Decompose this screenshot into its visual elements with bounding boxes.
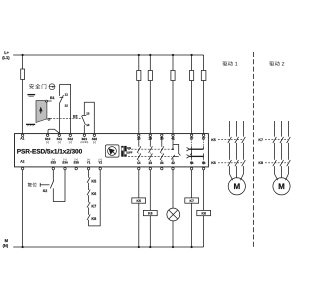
svg-text:K5: K5: [211, 138, 216, 142]
wire S11 riser (lower part): [59, 103, 61, 134]
svg-text:K5: K5: [91, 180, 96, 184]
output path 67-68 (semiconductor output bar): [187, 137, 204, 165]
wire jumper S10 to S11: [48, 129, 59, 134]
door guide bottom mark: [26, 124, 35, 126]
svg-text:B1: B1: [50, 96, 55, 100]
fuse F3: [148, 71, 152, 81]
svg-text:K8: K8: [258, 161, 263, 165]
fuse F5: [190, 71, 194, 81]
coil K7: [185, 198, 199, 203]
svg-text:14: 14: [137, 161, 141, 165]
wire 42 column to lamp: [172, 170, 174, 209]
safety door guard panel (hatched): [36, 101, 47, 123]
junction dot 23 column: [149, 54, 151, 56]
svg-text:A1: A1: [20, 137, 24, 141]
wire drop to fuse F3 (23 column): [149, 55, 151, 71]
terminal circles top row: [21, 134, 204, 136]
svg-text:S34: S34: [62, 161, 68, 165]
svg-text:K6: K6: [91, 192, 96, 196]
contact K6 aux (feedback): [87, 190, 90, 196]
wire 68 column to coil K8: [203, 170, 205, 211]
svg-text:OFF: OFF: [127, 152, 133, 155]
wire Y1 feedback chain top: [88, 170, 90, 178]
logo emblem: [105, 145, 119, 157]
wire S21 riser (lower part): [83, 125, 85, 134]
svg-text:驱动 2: 驱动 2: [269, 61, 285, 68]
svg-text:K6: K6: [148, 212, 152, 216]
junction dot: [191, 246, 193, 248]
svg-text:L+: L+: [4, 50, 9, 55]
svg-text:A2: A2: [20, 160, 24, 164]
lamp P1 indicator: [167, 208, 180, 221]
svg-text:[+]: [+]: [58, 141, 61, 144]
coil K8: [197, 210, 211, 215]
output path 57-58 (semiconductor output bar): [187, 137, 204, 165]
junction dot: [172, 246, 174, 248]
svg-text:[+]: [+]: [46, 141, 49, 144]
svg-text:M: M: [233, 182, 240, 191]
svg-text:S33: S33: [51, 161, 57, 165]
wire A1 drop from rail: [22, 55, 24, 69]
contact K7 aux (feedback): [87, 202, 90, 208]
wire B2 loop top: [84, 102, 94, 134]
svg-text:13: 13: [137, 137, 141, 141]
wire fuse F2 to terminal 13: [138, 81, 140, 135]
wire feedback chain bottom to Y2: [89, 170, 101, 226]
svg-text:Y1: Y1: [87, 161, 91, 165]
wire drop to fuse F5 (57 column): [191, 55, 193, 71]
svg-text:58: 58: [190, 161, 194, 165]
switch B2 make contact (13-14): [82, 102, 87, 125]
svg-text:34: 34: [160, 161, 164, 165]
wire fuse F6 to terminal 67: [203, 81, 205, 135]
svg-text:(L1): (L1): [2, 55, 10, 60]
drive 2 phase L3: [286, 121, 291, 180]
svg-text:21: 21: [65, 93, 69, 97]
mechanical link dashed line (relay 1): [128, 148, 173, 150]
wire fuse F1 to terminal A1: [22, 80, 24, 135]
contact K5 aux (feedback): [87, 177, 90, 183]
wire fuse F4 to terminal 41: [172, 81, 174, 135]
svg-text:PSR-ESD/5x1/1x2/300: PSR-ESD/5x1/1x2/300: [17, 148, 83, 155]
fuse F6: [201, 71, 206, 81]
svg-text:M: M: [278, 182, 285, 191]
contact K8 aux (feedback): [87, 214, 90, 220]
svg-text:57: 57: [190, 137, 194, 141]
svg-text:K7: K7: [91, 204, 96, 208]
svg-text:K5: K5: [137, 199, 141, 203]
svg-text:14: 14: [86, 123, 90, 127]
fuse F2: [137, 71, 141, 81]
svg-text:22: 22: [65, 103, 69, 107]
fuse F1 on A1 branch: [21, 69, 25, 80]
terminal circles bottom row: [21, 167, 204, 169]
svg-text:67: 67: [202, 137, 206, 141]
wire fuse F5 to terminal 57: [191, 81, 193, 135]
wire fuse F3 to terminal 23: [149, 81, 151, 135]
wire 14 column to coil K5: [138, 170, 140, 198]
junction dot A2 on M rail: [22, 246, 24, 248]
junction dot 13 column: [138, 54, 140, 56]
svg-text:[+]: [+]: [93, 141, 96, 144]
contactor K7 linkage (dashed): [265, 139, 288, 141]
mechanical link door to B2 (dashed): [50, 117, 81, 119]
drive 1 phase L3: [241, 121, 246, 180]
svg-text:68: 68: [202, 161, 206, 165]
wire coil K6 to M rail: [149, 216, 151, 247]
door guide top mark: [27, 95, 35, 97]
junction dot: [138, 246, 140, 248]
node L+ (L1) supply rail: [13, 54, 203, 56]
wire: [88, 183, 90, 190]
svg-text:S2: S2: [43, 189, 47, 193]
contact path 13-14 (two series make contacts): [137, 137, 141, 162]
wire S33 riser: [52, 170, 54, 181]
contactor K8 linkage (dashed): [265, 162, 288, 164]
svg-text:41: 41: [171, 137, 175, 141]
svg-text:(N): (N): [3, 243, 9, 248]
drive section separator (dashed): [252, 52, 254, 248]
node M (N) return rail: [13, 246, 203, 248]
safety gate actuator roller symbol: [49, 84, 56, 90]
wire S2 to S34 loop: [53, 170, 65, 202]
svg-text:S35: S35: [73, 161, 79, 165]
svg-text:23: 23: [149, 137, 153, 141]
door hinge pivot bottom: [48, 118, 50, 120]
wire B1 loop top: [60, 84, 71, 134]
contact path 23-24 (two series make contacts): [149, 137, 153, 162]
door motion arrow: [39, 107, 42, 114]
svg-text:13: 13: [86, 111, 90, 115]
wire 58 column to coil K7: [191, 170, 193, 198]
svg-text:42: 42: [171, 161, 175, 165]
motor M1: [228, 178, 245, 195]
wire rail corner to fuse F6 (67 column): [203, 55, 205, 71]
mechanical link dashed line (relay 2): [128, 155, 172, 157]
switch S2 reset button: [40, 180, 54, 188]
svg-text:(GND): (GND): [81, 141, 89, 144]
svg-text:K8: K8: [91, 217, 96, 221]
svg-text:24: 24: [149, 161, 153, 165]
svg-text:K7: K7: [258, 138, 263, 142]
svg-text:Y2: Y2: [98, 161, 102, 165]
svg-text:复位: 复位: [27, 181, 37, 188]
svg-text:驱动 1: 驱动 1: [222, 61, 238, 68]
door hinge pivot top: [46, 100, 48, 102]
wire: [88, 208, 90, 215]
wire coil K8 to M rail corner: [203, 216, 205, 247]
drive 1 phase L1 with K5/K6 main contacts: [228, 121, 233, 180]
coil K6: [143, 210, 157, 215]
DIP switch S1: [121, 146, 127, 157]
svg-text:[+]: [+]: [69, 141, 72, 144]
relay U1 PSR-ESD body: [15, 134, 209, 167]
svg-text:33: 33: [160, 137, 164, 141]
svg-text:B2: B2: [73, 115, 78, 119]
motor M2: [273, 178, 290, 195]
drive 2 phase L1 with K7/K8 main contacts: [273, 121, 278, 180]
wire drop to fuse F2 (13 column): [138, 55, 140, 71]
junction dot: [149, 246, 151, 248]
door link top: [48, 100, 52, 102]
contactor K5 linkage (dashed): [218, 139, 243, 141]
junction dot 57 column: [191, 54, 193, 56]
contact path 41-42 (break contacts): [171, 137, 180, 162]
wire 24 column to coil K6: [149, 170, 151, 211]
svg-text:ON: ON: [127, 147, 131, 150]
contactor K6 linkage (dashed): [218, 162, 243, 164]
svg-text:K6: K6: [211, 161, 216, 165]
coil K5: [132, 198, 146, 203]
svg-text:K7: K7: [190, 199, 194, 203]
wire A2 to M rail: [22, 170, 24, 247]
wire coil K7 to M rail: [191, 203, 193, 247]
svg-text:安全门: 安全门: [29, 83, 48, 90]
wire: [88, 195, 90, 202]
drive 1 phase L2: [235, 121, 239, 178]
contact path 33-34 (two series make contacts): [160, 137, 164, 162]
wire lamp to M rail: [172, 221, 174, 247]
junction dot 41 column: [172, 54, 174, 56]
wire coil K5 to M rail: [138, 203, 140, 247]
svg-text:K8: K8: [202, 212, 206, 216]
fuse F4: [171, 71, 175, 81]
switch B1 break contact (21-22): [60, 84, 64, 103]
wire drop to fuse F4 (41 column): [172, 55, 174, 71]
drive 2 phase L2: [280, 121, 284, 178]
junction dot at A1 drop: [22, 54, 24, 56]
